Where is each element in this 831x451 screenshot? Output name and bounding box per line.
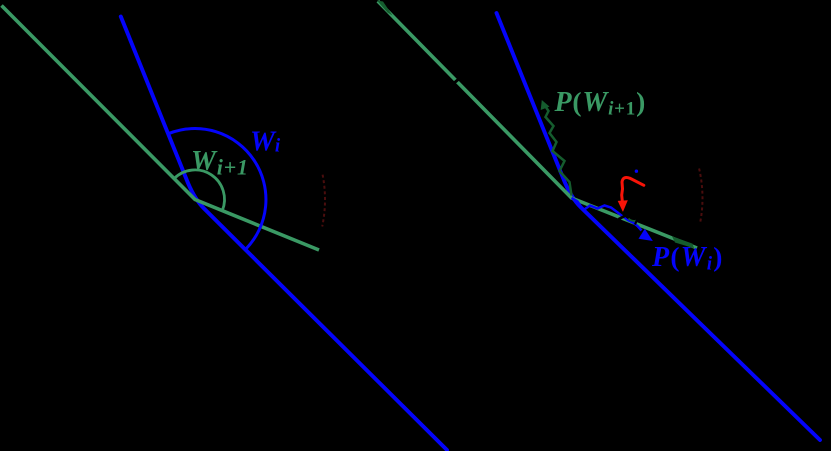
svg-text:P(Wi): P(Wi): [651, 241, 724, 275]
